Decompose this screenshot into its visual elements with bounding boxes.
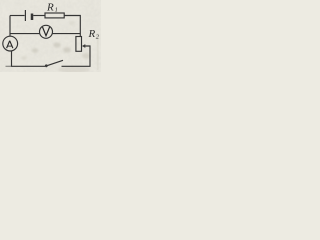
wire ammeter down to bottom wire (11, 51, 13, 67)
wire battery to R1 (33, 15, 45, 17)
label V in voltmeter (43, 27, 50, 36)
rheostat R2 box (76, 37, 82, 52)
svg-text:R: R (88, 28, 96, 40)
wire voltmeter branch right (52, 33, 80, 35)
voltmeter V circle (40, 25, 53, 38)
wire slider to right and down to bottom-right corner (62, 46, 91, 66)
scan smudge right edge streak (97, 33, 99, 70)
paper background (0, 0, 101, 72)
left vertical wire from top corner (9, 16, 11, 37)
scan smudge bottom right (58, 66, 90, 73)
wire bottom-left segment (11, 65, 45, 67)
wire R1 to top-right corner and down (64, 16, 80, 37)
svg-text:1: 1 (55, 7, 58, 14)
resistor R1 box (45, 13, 64, 18)
switch pivot dot (45, 64, 48, 67)
scan bleed-through spots middle band (32, 48, 39, 52)
wire voltmeter branch left (10, 33, 40, 35)
slider arrowhead (82, 44, 85, 48)
ammeter A circle (3, 36, 18, 51)
label A in ammeter (7, 41, 13, 49)
wire top-left horizontal (10, 15, 25, 17)
battery long plate (24, 10, 26, 21)
wire bottom far-left faint stub (6, 65, 12, 67)
switch lever (47, 60, 63, 65)
svg-text:R: R (46, 1, 54, 13)
battery short thick plate (31, 14, 34, 21)
